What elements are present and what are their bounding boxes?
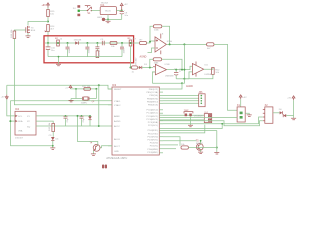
ground below Q3 bbox=[26, 33, 31, 37]
resistor R8 feedback bbox=[153, 25, 161, 32]
capacitor C10 polarized bottom-left in box bbox=[46, 43, 56, 57]
sensor SJ2 pads bbox=[184, 110, 204, 118]
TVS D6 bbox=[279, 109, 286, 117]
resistor R19 bbox=[181, 144, 197, 149]
svg-text:+5V: +5V bbox=[243, 97, 247, 99]
svg-text:RESET: RESET bbox=[114, 89, 122, 91]
supply arrow crystal VCC bbox=[65, 85, 72, 89]
wire IC4 pin2 bbox=[163, 119, 204, 121]
svg-text:PD6(AIN0): PD6(AIN0) bbox=[147, 148, 158, 151]
wire sensor net bbox=[163, 114, 204, 116]
svg-text:GND: GND bbox=[114, 151, 119, 153]
highlight box (red frame) bbox=[44, 36, 134, 63]
svg-text:XTAL2: XTAL2 bbox=[114, 104, 121, 107]
supply arrow right VCC bbox=[287, 96, 295, 116]
svg-text:PD0(RXD): PD0(RXD) bbox=[148, 130, 159, 132]
wire R14 into filter box bbox=[47, 32, 49, 44]
svg-text:PB4(MISO): PB4(MISO) bbox=[147, 101, 158, 103]
ground crystal bbox=[69, 99, 74, 102]
svg-text:R13 10k: R13 10k bbox=[49, 122, 51, 131]
capacitor C4 with resistor R3 below bbox=[95, 43, 101, 58]
wire op2 input chain bbox=[130, 67, 132, 69]
MCU left pin labels bbox=[114, 89, 122, 153]
resistor R4 horizontal on rail bbox=[110, 41, 117, 48]
svg-text:IC5B: IC5B bbox=[165, 64, 170, 66]
wire IC2 right pins bbox=[36, 116, 99, 127]
diode D1 series bbox=[91, 10, 100, 12]
svg-text:+5V: +5V bbox=[287, 98, 291, 100]
svg-text:ADC6: ADC6 bbox=[114, 138, 121, 141]
node T1 top bbox=[77, 115, 79, 117]
wire crystal top rail bbox=[71, 88, 97, 90]
svg-text:LM358N: LM358N bbox=[165, 75, 174, 77]
wire op3 plus input bbox=[189, 72, 192, 79]
svg-text:DS1307: DS1307 bbox=[15, 138, 24, 140]
supply arrow VCC out bbox=[120, 3, 128, 10]
svg-text:AGND: AGND bbox=[140, 56, 147, 59]
svg-text:100n: 100n bbox=[89, 48, 91, 54]
capacitor C5 series on rail bbox=[100, 39, 104, 45]
svg-text:IC2: IC2 bbox=[15, 107, 20, 111]
svg-text:1N4148: 1N4148 bbox=[74, 40, 82, 42]
ground bottom-left bbox=[50, 145, 55, 149]
resistor R11 feedback2 bbox=[153, 58, 161, 65]
svg-text:PD2(INT0): PD2(INT0) bbox=[148, 136, 159, 138]
IC2 RTC box bbox=[15, 107, 36, 139]
svg-text:AGND: AGND bbox=[186, 85, 193, 88]
svg-text:IC3: IC3 bbox=[112, 83, 117, 87]
capacitor C3 bbox=[85, 43, 90, 57]
svg-text:PC3(ADC3): PC3(ADC3) bbox=[146, 118, 158, 121]
resistor R12 vertical bbox=[212, 68, 221, 75]
node j121 bbox=[9, 120, 11, 122]
supply arrow X1 VCC bbox=[239, 95, 247, 99]
node out2 junctions bbox=[175, 69, 185, 71]
wire X2 lower feed bbox=[159, 120, 163, 122]
IC4 box bbox=[204, 112, 211, 123]
crystal Q1 bbox=[81, 97, 96, 105]
op-amp IC5B bbox=[153, 63, 174, 78]
svg-text:PB1(OC1A): PB1(OC1A) bbox=[146, 91, 158, 94]
wire connector to switch bbox=[80, 10, 87, 12]
svg-text:16MHz: 16MHz bbox=[81, 103, 88, 105]
wire horizontal y100 bbox=[10, 100, 112, 102]
svg-text:IC1: IC1 bbox=[100, 3, 105, 7]
resistor R13 bbox=[49, 122, 55, 132]
wire MCU to X1 bbox=[163, 116, 237, 118]
resistor R17 bbox=[82, 86, 90, 90]
wire feedback2 to output2 bbox=[162, 59, 182, 69]
wire aref rail to MCU bbox=[99, 125, 112, 127]
wire op-amp plus input to ref bbox=[140, 48, 156, 59]
node output junctions bbox=[169, 43, 186, 45]
node j85 bbox=[98, 84, 100, 86]
wire X1 vcc stub bbox=[240, 99, 242, 107]
diode D2 on rail bbox=[74, 40, 82, 45]
resistor R15 bbox=[47, 10, 55, 17]
wire ref rail bbox=[152, 82, 182, 84]
wire X2 feed bbox=[163, 121, 263, 126]
node feedback junction bbox=[149, 41, 151, 43]
resistor R5 vertical on rail bbox=[128, 38, 137, 46]
capacitor C7 polarized bbox=[174, 68, 181, 79]
node filter junctions bbox=[47, 42, 132, 44]
ground X1 bbox=[245, 113, 252, 116]
wire IC2 left low bbox=[9, 101, 11, 146]
capacitor C12 bbox=[80, 115, 86, 126]
wire feedback up bbox=[150, 26, 153, 41]
ground right edge bbox=[291, 116, 296, 120]
svg-text:PC0(ADC0): PC0(ADC0) bbox=[146, 109, 158, 112]
wire T1 collector up bbox=[78, 116, 98, 145]
svg-text:R6 4k7: R6 4k7 bbox=[136, 57, 138, 65]
wire R12 down to ref bbox=[184, 74, 213, 78]
wire op2 plus input down bbox=[152, 72, 155, 83]
wire IC2 sda stub bbox=[10, 120, 15, 122]
svg-text:PC5(SCL): PC5(SCL) bbox=[148, 125, 158, 127]
wire filter bottom rail bbox=[48, 56, 122, 58]
wire ISP header nets bbox=[163, 96, 199, 104]
wire ref segment bbox=[176, 78, 189, 80]
wire down x98 bbox=[98, 85, 100, 126]
capacitor C8 polarized bbox=[120, 10, 129, 19]
connector X4 power input bbox=[73, 5, 80, 16]
transistor T5 bbox=[196, 140, 204, 151]
connector X2 bbox=[263, 104, 273, 123]
svg-text:AVCC: AVCC bbox=[114, 125, 120, 128]
wire filter main rail bbox=[45, 42, 134, 44]
wire bottom rail left bbox=[10, 145, 52, 147]
switch S1 bbox=[85, 6, 92, 16]
ground T5 bbox=[198, 150, 203, 154]
svg-text:R16 10k: R16 10k bbox=[11, 29, 13, 38]
regulator IC1 bbox=[100, 2, 116, 14]
node T5c bbox=[200, 140, 202, 142]
svg-text:ADC7: ADC7 bbox=[114, 145, 121, 148]
connector X1 bbox=[237, 104, 245, 122]
wire bottom-right nets bbox=[163, 125, 217, 149]
supply arrow P1 bbox=[42, 3, 50, 8]
LED LED1 bbox=[97, 17, 105, 21]
resistor R7 horizontal bbox=[140, 39, 147, 44]
svg-text:JP1: JP1 bbox=[199, 91, 204, 94]
svg-text:PD3(INT1): PD3(INT1) bbox=[148, 140, 159, 142]
ground sensor bbox=[188, 116, 193, 127]
wire R7 to op-amp input bbox=[147, 41, 156, 43]
supply arrow VCC3 down bbox=[1, 95, 9, 100]
MCU right pin labels bbox=[146, 89, 158, 154]
svg-text:R17 1M: R17 1M bbox=[82, 86, 90, 88]
wire op2 feedback up bbox=[150, 59, 153, 67]
svg-text:+9V: +9V bbox=[42, 4, 47, 7]
svg-text:PC4(SDA): PC4(SDA) bbox=[148, 121, 158, 124]
svg-text:PB3(MOSI): PB3(MOSI) bbox=[147, 98, 158, 100]
svg-text:PB0(ICP): PB0(ICP) bbox=[149, 89, 159, 91]
svg-text:PB2(SS): PB2(SS) bbox=[149, 95, 158, 97]
node j126 bbox=[98, 125, 100, 127]
svg-text:AREF: AREF bbox=[114, 115, 120, 118]
wire arrow to IC2 pin bbox=[7, 99, 15, 116]
ground T1 bbox=[91, 151, 96, 156]
node junction J1 bbox=[47, 21, 49, 23]
wire right gnd drop bbox=[197, 131, 218, 153]
svg-text:PD1(TXD): PD1(TXD) bbox=[148, 133, 158, 135]
wire regulator gnd pin bbox=[107, 15, 109, 21]
MCU pin stubs left bbox=[108, 89, 112, 146]
svg-text:ATMEGA8-16PU: ATMEGA8-16PU bbox=[106, 156, 127, 160]
capacitor C6 bbox=[120, 43, 125, 57]
wire X2 sda link bbox=[163, 117, 263, 129]
svg-text:100n: 100n bbox=[123, 48, 125, 54]
svg-text:XTAL1: XTAL1 bbox=[114, 100, 121, 103]
wire gnd rail regulator bbox=[105, 18, 122, 20]
svg-text:PD4(T0): PD4(T0) bbox=[150, 143, 159, 145]
svg-text:IC5A: IC5A bbox=[167, 40, 172, 43]
svg-text:BC547: BC547 bbox=[196, 143, 203, 145]
svg-text:SQ: SQ bbox=[27, 126, 30, 128]
solder jumper SJ1 bbox=[102, 165, 107, 169]
wire op3 output bbox=[204, 68, 213, 70]
svg-text:PD5(T1): PD5(T1) bbox=[150, 146, 159, 148]
node crystal junction bbox=[95, 88, 97, 90]
svg-text:100n: 100n bbox=[69, 48, 71, 54]
svg-text:SDA: SDA bbox=[18, 120, 23, 123]
capacitor C2 bbox=[66, 43, 71, 57]
svg-text:PB5(SCK): PB5(SCK) bbox=[148, 105, 158, 107]
wire R13 down bbox=[52, 132, 54, 137]
op-amp IC5A bbox=[155, 34, 172, 55]
svg-text:PC2(ADC2): PC2(ADC2) bbox=[146, 115, 158, 118]
svg-text:BSS: BSS bbox=[31, 30, 36, 32]
resistor R16 bbox=[11, 29, 16, 39]
capacitor C11 bbox=[64, 115, 70, 126]
wire op1 output run bbox=[166, 43, 206, 45]
svg-text:+5V: +5V bbox=[124, 4, 128, 6]
svg-text:AGND: AGND bbox=[114, 120, 121, 123]
MCU pin stubs right bbox=[159, 89, 163, 153]
diode D5 bbox=[88, 115, 92, 126]
wire regulator output bbox=[116, 9, 121, 11]
diode D4 bbox=[49, 135, 60, 146]
resistor R10 bbox=[132, 66, 138, 74]
resistor R2 vertical on rail bbox=[55, 38, 63, 46]
transistor Q3 bbox=[26, 26, 36, 33]
node vout junction bbox=[121, 9, 123, 11]
wire crystal side links bbox=[71, 88, 96, 99]
svg-text:TMP: TMP bbox=[184, 110, 189, 112]
svg-text:PD7(AIN1): PD7(AIN1) bbox=[147, 151, 158, 154]
wire T5 collector up bbox=[200, 141, 202, 144]
wire op2 output bbox=[167, 66, 193, 69]
svg-text:LM358: LM358 bbox=[204, 74, 211, 76]
wire VCC left net bbox=[6, 85, 8, 94]
svg-text:+5V: +5V bbox=[1, 97, 5, 99]
op-amp IC5C bbox=[192, 62, 211, 77]
wire gate run bbox=[14, 30, 25, 31]
wire R9 to right connector bbox=[214, 44, 237, 110]
wire VCC to R1 top-left bbox=[47, 7, 49, 22]
wire junction down to lower stage bbox=[183, 44, 185, 78]
wire R16 bottom long vertical to lower-left bbox=[14, 38, 112, 104]
wire junction to Q3 gate run bbox=[28, 22, 48, 26]
MCU IC3 box bbox=[106, 83, 159, 160]
svg-text:R3 1k: R3 1k bbox=[99, 49, 101, 56]
wire TVS links bbox=[273, 113, 294, 116]
wire horizontal y85 bbox=[7, 85, 112, 89]
wire feedback to output bbox=[162, 26, 170, 44]
wire R5 down out of box bbox=[130, 46, 132, 68]
wire T1 base net bbox=[100, 146, 112, 148]
node op2 input junction bbox=[149, 67, 151, 69]
transistor T1 bbox=[89, 141, 100, 151]
svg-text:VBA: VBA bbox=[18, 130, 23, 133]
node gnd junction bbox=[107, 18, 109, 20]
ground right-bottom bbox=[214, 153, 219, 155]
node ref junction bbox=[183, 78, 185, 80]
svg-text:78L05: 78L05 bbox=[105, 11, 112, 13]
diode D3 bbox=[138, 64, 154, 69]
wire filter out to R7 bbox=[134, 42, 140, 44]
svg-text:LED1: LED1 bbox=[97, 17, 103, 19]
resistor R9 output bbox=[207, 43, 214, 50]
svg-text:PC1(ADC1): PC1(ADC1) bbox=[146, 112, 158, 115]
header JP1 bbox=[199, 91, 206, 107]
resistor R14 above red box bbox=[45, 25, 55, 33]
wire rail drop to MCU bbox=[163, 79, 184, 89]
ground below filter box bbox=[56, 56, 61, 66]
ground regulator bbox=[106, 21, 111, 23]
